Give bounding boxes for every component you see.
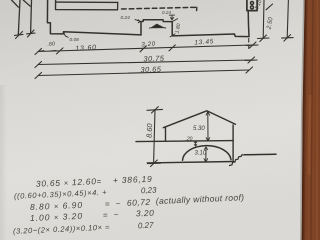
svg-text:30.65: 30.65	[140, 65, 162, 75]
svg-text:8.60: 8.60	[145, 122, 155, 138]
svg-text:13.45: 13.45	[194, 38, 214, 46]
svg-text:= −: = −	[105, 199, 123, 209]
svg-text:3.20: 3.20	[141, 41, 156, 49]
svg-text:0.24: 0.24	[121, 15, 131, 21]
svg-text:60,72: 60,72	[127, 197, 151, 208]
svg-text:13.60: 13.60	[75, 44, 97, 52]
svg-text:5.30: 5.30	[193, 126, 205, 132]
svg-text:3.10: 3.10	[195, 151, 207, 157]
svg-text:= −: = −	[103, 210, 121, 220]
svg-text:3.20: 3.20	[136, 208, 155, 219]
svg-text:0,23: 0,23	[141, 186, 157, 196]
svg-text:0.24: 0.24	[162, 10, 171, 15]
svg-text:.60: .60	[47, 41, 55, 48]
svg-text:.20: .20	[186, 137, 193, 143]
svg-text:0.27: 0.27	[138, 221, 154, 231]
svg-text:+ 386,19: + 386,19	[113, 174, 153, 186]
svg-text:0.08: 0.08	[70, 37, 80, 43]
svg-text:30.75: 30.75	[143, 54, 165, 64]
